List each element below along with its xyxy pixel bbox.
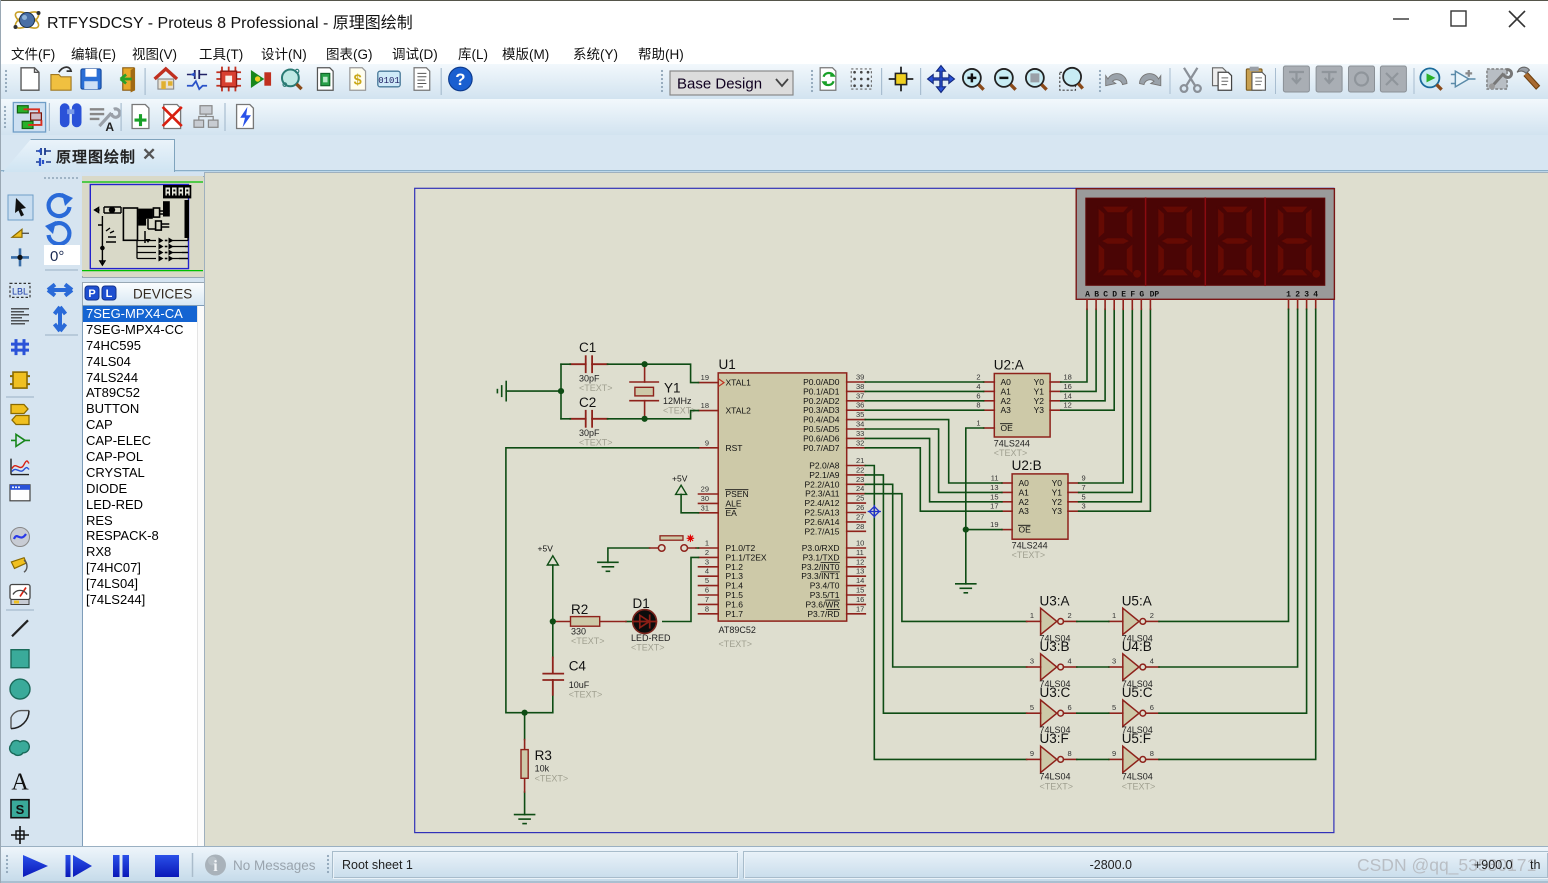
svg-text:16: 16 <box>1064 382 1072 391</box>
svg-text:<TEXT>: <TEXT> <box>994 448 1028 458</box>
icon: import <box>121 68 136 93</box>
icon: pan <box>928 66 955 93</box>
svg-text:15: 15 <box>856 586 864 595</box>
capacitor C1 <box>570 340 612 393</box>
microcontroller U1 AT89C52 <box>718 357 847 649</box>
U1 pin names <box>719 377 840 619</box>
svg-text:U3:B: U3:B <box>1040 639 1070 654</box>
svg-text:C1: C1 <box>579 340 596 355</box>
svg-text:2: 2 <box>1150 611 1154 620</box>
icon: del-sheet <box>163 105 182 129</box>
icon: dollar-doc <box>350 68 366 90</box>
svg-text:23: 23 <box>856 475 864 484</box>
media: pause <box>113 855 120 877</box>
svg-text:Y1: Y1 <box>664 381 681 396</box>
tool: symbol <box>11 800 29 818</box>
svg-text:U5:A: U5:A <box>1122 594 1152 609</box>
svg-text:P0.7/AD7: P0.7/AD7 <box>803 443 840 453</box>
wire: ground to rail <box>506 390 561 392</box>
svg-text:U3:A: U3:A <box>1040 594 1070 609</box>
power +5V (reset rail) <box>538 544 559 566</box>
tool: wire <box>12 229 29 237</box>
svg-text:2: 2 <box>1295 291 1300 300</box>
icon: 3dview <box>251 70 271 88</box>
svg-text:17: 17 <box>990 502 998 511</box>
svg-text:C4: C4 <box>569 659 587 674</box>
icon: copy <box>1213 68 1232 90</box>
icon: add-net <box>1451 70 1476 87</box>
svg-text:0101: 0101 <box>378 76 400 86</box>
svg-text:1: 1 <box>1286 291 1291 300</box>
wire P2.1 to U3:C <box>865 475 1026 713</box>
svg-text:9: 9 <box>1082 474 1086 483</box>
svg-text:33: 33 <box>856 429 864 438</box>
svg-text:R2: R2 <box>571 602 588 617</box>
svg-text:3: 3 <box>705 557 709 566</box>
U1 left pins <box>699 383 719 614</box>
U1 right pins <box>847 382 866 614</box>
svg-text:15: 15 <box>990 492 998 501</box>
junction node: OE net <box>963 527 969 533</box>
svg-text:4: 4 <box>976 382 980 391</box>
svg-text:8: 8 <box>1068 749 1072 758</box>
svg-text:4: 4 <box>1150 657 1154 666</box>
icon: hierarchy <box>194 106 218 128</box>
svg-text:1: 1 <box>1030 611 1034 620</box>
tool: label <box>10 283 30 297</box>
tool: bus <box>11 339 29 355</box>
svg-text:2: 2 <box>705 548 709 557</box>
wire: button to ground and P1.0 <box>608 548 699 562</box>
svg-text:17: 17 <box>856 604 864 613</box>
tool: 2d box <box>11 650 29 668</box>
svg-text:Base Design: Base Design <box>677 76 762 93</box>
svg-text:35: 35 <box>856 410 864 419</box>
svg-text:OE: OE <box>1001 423 1014 433</box>
ground (OE net) <box>956 584 976 593</box>
wire OE net to ground <box>966 428 1002 584</box>
svg-text:A: A <box>1085 291 1090 300</box>
svg-text:LBL: LBL <box>12 286 28 296</box>
wire U4:B out to display pin 2 <box>1159 309 1298 667</box>
tool: script <box>11 309 29 324</box>
wire: left rail between C1 and C2 <box>560 364 562 419</box>
disabled block icons <box>1283 66 1406 92</box>
svg-text:+5V: +5V <box>538 544 554 554</box>
message icon <box>205 855 226 876</box>
wire: D1 to P1.1 <box>663 557 699 621</box>
tool: junction <box>11 248 29 266</box>
svg-text:F: F <box>1130 291 1135 300</box>
wire U2:A Y3 to display D <box>1061 309 1114 410</box>
svg-text:3: 3 <box>1112 657 1116 666</box>
svg-text:21: 21 <box>856 456 864 465</box>
icon: netlist (selected) <box>17 106 41 129</box>
wire U2:B Y1 to display F <box>1079 309 1133 492</box>
svg-text:XTAL1: XTAL1 <box>726 378 752 388</box>
junction node: C1 rail / crystal top <box>642 361 648 367</box>
icon: hammer <box>1517 67 1539 89</box>
icon: find <box>282 69 302 89</box>
svg-text:74LS04: 74LS04 <box>1040 771 1071 781</box>
svg-text:25: 25 <box>856 494 864 503</box>
svg-text:-2800.0: -2800.0 <box>1090 858 1132 872</box>
media: play <box>23 855 48 877</box>
tool: graph <box>11 459 29 475</box>
wire P0.2 to U2:A A2 <box>865 400 983 402</box>
icon: electrical-check <box>237 105 254 129</box>
svg-text:OE: OE <box>1019 525 1032 535</box>
power +5V (EA) <box>672 474 688 495</box>
icon: origin <box>889 67 914 92</box>
junction node: RST / C4 / R3 <box>522 710 528 716</box>
mirror h <box>48 285 72 296</box>
window buttons <box>1381 0 1548 36</box>
svg-text:74LS244: 74LS244 <box>994 439 1030 449</box>
panels <box>333 852 1548 879</box>
svg-text:7: 7 <box>705 595 709 604</box>
resistor R2 330 <box>553 602 626 646</box>
wire P0.3 to U2:A A3 <box>865 409 983 411</box>
svg-text:6: 6 <box>705 586 709 595</box>
svg-text:U1: U1 <box>719 357 736 372</box>
icon: save <box>81 69 101 89</box>
svg-text:EA: EA <box>726 508 738 518</box>
wire: R2 to D1 <box>626 621 633 623</box>
wire: RST net <box>506 448 699 713</box>
svg-text:24: 24 <box>856 484 864 493</box>
svg-text:E: E <box>1121 291 1126 300</box>
svg-text:C: C <box>1103 291 1108 300</box>
svg-text:18: 18 <box>1064 373 1072 382</box>
svg-text:?: ? <box>455 70 465 89</box>
svg-text:4: 4 <box>705 567 709 576</box>
svg-text:11: 11 <box>856 548 864 557</box>
svg-text:8: 8 <box>1150 749 1154 758</box>
svg-text:<TEXT>: <TEXT> <box>1122 781 1156 791</box>
svg-text:7: 7 <box>1082 483 1086 492</box>
wire U2:B Y3 to display DP <box>1079 309 1151 511</box>
svg-text:19: 19 <box>990 520 998 529</box>
wire: C1 rail to XTAL1 <box>506 364 699 814</box>
svg-text:3: 3 <box>1030 657 1034 666</box>
svg-text:No Messages: No Messages <box>233 858 316 873</box>
svg-text:$: $ <box>354 73 362 89</box>
wire U3:C out to U5:C in <box>1077 712 1109 714</box>
tool: 2d closed path <box>10 740 30 755</box>
svg-text:3: 3 <box>1304 291 1309 300</box>
tool: generator <box>11 528 30 547</box>
svg-text:30: 30 <box>701 494 709 503</box>
tool: 2d line <box>12 620 28 636</box>
svg-text:B: B <box>1094 291 1099 300</box>
svg-text:0°: 0° <box>50 248 64 265</box>
wire U5:C out to display pin 3 <box>1159 309 1307 713</box>
7-segment display 7SEG-MPX4-CA <box>1076 189 1334 310</box>
svg-text:6: 6 <box>1150 703 1154 712</box>
svg-text:A3: A3 <box>1001 405 1012 415</box>
icon: paste <box>1246 67 1265 91</box>
icon: chip <box>216 67 241 92</box>
svg-text:5: 5 <box>705 576 709 585</box>
svg-text:6: 6 <box>976 391 980 400</box>
svg-text:<TEXT>: <TEXT> <box>571 636 605 646</box>
inverter U3:B 74LS04 <box>1027 639 1077 689</box>
svg-text:Root sheet 1: Root sheet 1 <box>342 858 413 872</box>
svg-text:13: 13 <box>856 567 864 576</box>
svg-text:S: S <box>16 802 25 817</box>
svg-text:27: 27 <box>856 512 864 521</box>
junction node: +5V rail / R2 <box>550 618 556 624</box>
icon: property-tool <box>90 109 120 134</box>
icon: grid <box>851 69 871 89</box>
svg-text:5: 5 <box>1082 492 1086 501</box>
svg-text:12: 12 <box>856 557 864 566</box>
icon: 0101 <box>378 71 400 87</box>
svg-text:4: 4 <box>1068 657 1072 666</box>
svg-text:<TEXT>: <TEXT> <box>579 437 613 447</box>
svg-text:U4:B: U4:B <box>1122 639 1152 654</box>
inverter U4:B 74LS04 <box>1109 639 1159 689</box>
wire P0.5 to U2:B A1 <box>865 429 1002 492</box>
svg-text:<TEXT>: <TEXT> <box>719 639 753 649</box>
wire U2:A Y1 to display B <box>1061 309 1096 391</box>
svg-text:DP: DP <box>1150 291 1160 300</box>
inverter U5:C 74LS04 <box>1109 685 1159 735</box>
svg-text:G: G <box>1139 291 1144 300</box>
icon: zoom-sel <box>1026 69 1047 90</box>
inverter U5:F 74LS04 <box>1109 731 1159 791</box>
wire U2:B Y0 to display E <box>1079 309 1124 483</box>
svg-text:A3: A3 <box>1019 506 1030 516</box>
svg-text:29: 29 <box>701 485 709 494</box>
svg-text:22: 22 <box>856 465 864 474</box>
svg-text:16: 16 <box>856 595 864 604</box>
cursor cross marker <box>868 506 880 518</box>
svg-text:74LS04: 74LS04 <box>1122 771 1153 781</box>
svg-text:38: 38 <box>856 382 864 391</box>
svg-text:U3:F: U3:F <box>1040 731 1069 746</box>
svg-text:P2.7/A15: P2.7/A15 <box>805 526 840 536</box>
tool: cursor <box>15 198 26 217</box>
svg-text:U5:F: U5:F <box>1122 731 1151 746</box>
grips <box>5 70 1101 92</box>
tool: probe <box>11 556 28 572</box>
wire U2:A Y0 to display A <box>1061 309 1087 382</box>
tool: meter <box>10 585 30 605</box>
mirror v <box>55 307 66 331</box>
icon: redo <box>1140 74 1161 86</box>
icon: refresh-sheet <box>820 68 836 90</box>
svg-text:8: 8 <box>976 401 980 410</box>
svg-text:R3: R3 <box>535 748 552 763</box>
svg-text:39: 39 <box>856 373 864 382</box>
icon: open <box>51 67 71 90</box>
svg-text:36: 36 <box>856 401 864 410</box>
svg-text:DEVICES: DEVICES <box>133 287 192 302</box>
svg-text:4: 4 <box>1313 291 1318 300</box>
wire P2.2 to U3:B <box>865 484 1026 667</box>
wire U3:A out to U5:A in <box>1077 620 1109 622</box>
inverter U3:C 74LS04 <box>1027 685 1077 735</box>
media: step <box>66 855 71 877</box>
svg-text:L: L <box>106 288 113 300</box>
svg-text:37: 37 <box>856 391 864 400</box>
svg-text:D: D <box>1112 291 1117 300</box>
svg-text:1: 1 <box>705 539 709 548</box>
icon: new-sheet <box>132 105 149 129</box>
svg-text:+900.0: +900.0 <box>1474 858 1513 872</box>
svg-text:31: 31 <box>701 503 709 512</box>
icon: bom-chip <box>317 68 333 90</box>
svg-text:<TEXT>: <TEXT> <box>631 642 665 652</box>
crystal Y1 12MHz <box>630 364 697 419</box>
svg-text:19: 19 <box>701 373 709 382</box>
svg-text:26: 26 <box>856 503 864 512</box>
svg-text:12: 12 <box>1064 401 1072 410</box>
svg-text:i: i <box>213 858 218 875</box>
icon: cut <box>1181 68 1201 92</box>
svg-text:AT89C52: AT89C52 <box>719 625 756 635</box>
svg-text:<TEXT>: <TEXT> <box>535 773 569 783</box>
svg-text:14: 14 <box>856 576 864 585</box>
tool: 2d circle <box>10 679 30 699</box>
svg-text:3: 3 <box>1082 502 1086 511</box>
wire U5:F out to display pin 4 <box>1159 309 1316 759</box>
wire P0.0 to U2:A A0 <box>865 381 983 383</box>
svg-text:2: 2 <box>976 373 980 382</box>
icon: zoom-net <box>1420 68 1441 89</box>
svg-text:A: A <box>11 769 29 795</box>
tool: pin <box>11 434 30 446</box>
svg-text:<TEXT>: <TEXT> <box>1040 781 1074 791</box>
svg-text:13: 13 <box>990 483 998 492</box>
tool: tape <box>10 485 30 501</box>
svg-text:9: 9 <box>1030 749 1034 758</box>
svg-text:10: 10 <box>856 539 864 548</box>
svg-text:74LS244: 74LS244 <box>1012 541 1048 551</box>
wire U5:A out to display pin 1 <box>1159 309 1289 621</box>
svg-text:18: 18 <box>701 401 709 410</box>
inverter rows <box>137 200 188 259</box>
svg-text:34: 34 <box>856 420 864 429</box>
U1 overbars <box>726 490 840 610</box>
svg-text:14: 14 <box>1064 391 1072 400</box>
buffer U2:B 74LS244 <box>990 458 1086 560</box>
svg-text:9: 9 <box>705 438 709 447</box>
svg-text:5: 5 <box>1112 703 1116 712</box>
wire P0.7 to U2:B A3 <box>865 448 1002 511</box>
display pins <box>1087 300 1316 310</box>
angle box <box>44 245 80 265</box>
icon: zoom-all <box>1060 68 1083 90</box>
svg-text:5: 5 <box>1030 703 1034 712</box>
icon: search <box>60 103 82 127</box>
sheet border <box>415 188 1334 832</box>
ground (crystal, left) <box>497 382 506 401</box>
tool: text <box>11 769 29 795</box>
button (reset) <box>650 535 697 551</box>
wire P2.3 to U3:A <box>865 494 1026 622</box>
icon: undo <box>1106 74 1127 86</box>
tool: 2d arc <box>11 711 29 729</box>
svg-text:6: 6 <box>1068 703 1072 712</box>
wire U2:B Y2 to display G <box>1079 309 1142 502</box>
junction node: ground / left rail <box>558 388 564 394</box>
svg-text:P: P <box>88 288 95 300</box>
svg-text:<TEXT>: <TEXT> <box>569 689 603 699</box>
U1 pin numbers <box>701 373 865 614</box>
ground (R3) <box>515 815 535 824</box>
svg-text:+5V: +5V <box>672 474 688 484</box>
icon: home <box>155 69 177 89</box>
svg-text:<TEXT>: <TEXT> <box>1012 550 1046 560</box>
icon: config-chip <box>1487 69 1512 89</box>
svg-text:C2: C2 <box>579 395 596 410</box>
icon: zoom-out <box>995 69 1016 90</box>
media: stop <box>155 855 179 877</box>
inverter U3:A 74LS04 <box>1027 594 1077 644</box>
svg-text:P3.7/RD: P3.7/RD <box>807 609 839 619</box>
icon: new <box>21 68 39 90</box>
svg-text:th: th <box>1530 858 1540 872</box>
svg-text:2: 2 <box>1068 611 1072 620</box>
wire: C2 rail to XTAL2 <box>561 411 699 419</box>
icon: schematic <box>187 70 207 89</box>
inverter U5:A 74LS04 <box>1109 594 1159 644</box>
buffer U2:A 74LS244 <box>976 358 1072 459</box>
rotate ccw <box>45 221 69 244</box>
wire P2.0 to U3:F <box>865 466 1026 760</box>
wire U3:F out to U5:F in <box>1077 758 1109 760</box>
wire P0.1 to U2:A A1 <box>865 390 983 392</box>
icon: notes <box>414 68 430 90</box>
tool: marker <box>11 826 29 844</box>
wire: +5V to EA <box>681 494 698 512</box>
wire P0.4 to U2:B A0 <box>865 420 1002 483</box>
Base Design combo <box>670 71 793 95</box>
svg-text:1: 1 <box>976 419 980 428</box>
svg-text:A: A <box>105 120 114 134</box>
svg-text:10k: 10k <box>535 764 550 774</box>
svg-text:U3:C: U3:C <box>1040 685 1071 700</box>
svg-text:1: 1 <box>1112 611 1116 620</box>
svg-text:U2:A: U2:A <box>994 358 1024 373</box>
wire U3:B out to U4:B in <box>1077 666 1109 668</box>
svg-text:D1: D1 <box>633 596 650 611</box>
inverter U3:F 74LS04 <box>1027 731 1077 791</box>
svg-text:32: 32 <box>856 438 864 447</box>
left cluster caps/crystal <box>95 207 121 265</box>
svg-text:XTAL2: XTAL2 <box>726 406 752 416</box>
svg-text:9: 9 <box>1112 749 1116 758</box>
wire: +5V rail through R2 junction to C4 <box>525 565 553 713</box>
capacitor C2 <box>570 395 612 447</box>
icon: zoom-in <box>963 69 984 90</box>
resistor R3 10k <box>521 740 568 792</box>
rotate cw <box>49 193 73 216</box>
tool: terminal <box>11 405 29 425</box>
svg-text:RST: RST <box>726 443 743 453</box>
ground (button) <box>598 562 618 571</box>
svg-text:<TEXT>: <TEXT> <box>579 383 613 393</box>
LED D1 LED-RED <box>631 596 671 652</box>
wire: junction to R3 and ground <box>524 713 526 815</box>
capacitor C4 10uF <box>543 657 602 699</box>
svg-text:Y3: Y3 <box>1052 506 1063 516</box>
svg-text:28: 28 <box>856 522 864 531</box>
svg-text:U5:C: U5:C <box>1122 685 1153 700</box>
